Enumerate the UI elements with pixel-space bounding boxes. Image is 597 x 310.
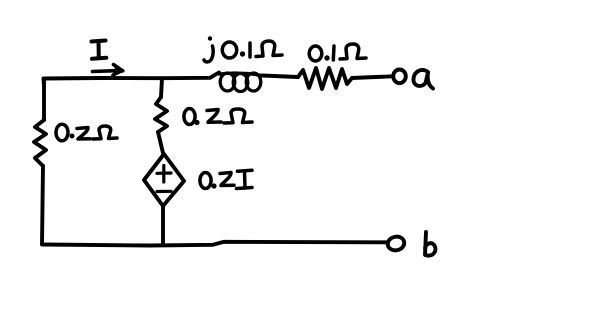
label 0.2 ohm left	[56, 124, 117, 141]
resistor R1 0.1 ohm zigzag	[298, 68, 352, 89]
inductor L1 j0.1 ohm coils	[219, 73, 262, 92]
label 0.2I	[200, 170, 252, 188]
label j0.1 ohm	[204, 36, 282, 62]
dependent source U1 diamond	[144, 154, 184, 206]
left vertical wire bottom	[42, 166, 43, 244]
wire top-left horizontal segment	[44, 78, 163, 86]
terminal a circle	[393, 70, 406, 84]
wire resistor to terminal a	[352, 76, 393, 78]
terminal b circle	[386, 235, 405, 252]
label 0.1 ohm	[309, 44, 366, 61]
middle vertical wire top	[161, 78, 162, 97]
wire junction to inductor	[162, 73, 219, 79]
resistor R3 0.2 ohm middle zigzag	[155, 97, 167, 132]
letter b	[425, 232, 435, 256]
left vertical wire top	[42, 79, 46, 121]
minus sign	[157, 190, 171, 193]
wire middle resistor to diamond	[158, 132, 163, 153]
resistor R2 0.2 ohm left zigzag	[34, 120, 46, 166]
bottom wire	[42, 242, 387, 246]
current label I	[92, 41, 107, 59]
middle vertical wire bottom	[161, 206, 165, 245]
current arrow	[93, 65, 123, 76]
wire inductor to resistor	[262, 76, 298, 78]
plus sign	[157, 166, 171, 183]
label 0.2 ohm middle	[184, 109, 252, 126]
letter a	[413, 70, 433, 88]
